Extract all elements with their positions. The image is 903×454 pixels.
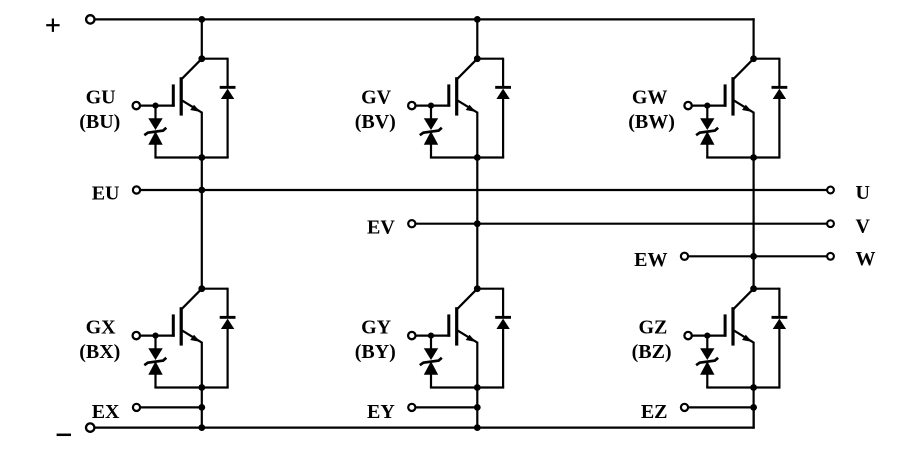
- node EW rail / leg: [750, 253, 757, 260]
- gate-emitter zener pair D4z: [144, 336, 166, 388]
- terminal EX: [133, 404, 140, 411]
- label - (negative DC terminal): [57, 434, 71, 437]
- wire zener to emitter node: [706, 156, 753, 158]
- gate node junction: [428, 333, 434, 339]
- terminal P (+): [86, 15, 94, 23]
- terminal N (-): [86, 423, 94, 431]
- collector node junction: [198, 285, 205, 292]
- wire EX to leg: [140, 406, 202, 408]
- freewheel diode D6: [754, 288, 788, 388]
- gate wire GU: [140, 104, 175, 106]
- wire zener to emitter node: [430, 386, 477, 388]
- wire zener to emitter node: [706, 386, 753, 388]
- IGBT Q5: [447, 289, 477, 346]
- wire bottom DC- rail: [94, 427, 754, 429]
- svg-text:(BX): (BX): [79, 341, 120, 363]
- emitter node junction: [198, 384, 205, 391]
- emitter node junction: [750, 384, 757, 391]
- svg-text:EU: EU: [92, 183, 120, 205]
- gate node junction: [152, 103, 158, 109]
- gate terminal GV: [408, 102, 415, 109]
- collector node junction: [474, 55, 481, 62]
- gate wire GZ: [692, 335, 727, 337]
- svg-text:EY: EY: [367, 401, 395, 423]
- collector node junction: [198, 55, 205, 62]
- gate wire GY: [416, 335, 451, 337]
- terminal W: [827, 253, 834, 260]
- collector node junction: [750, 55, 757, 62]
- svg-text:GV: GV: [361, 87, 392, 109]
- emitter wire: [476, 112, 478, 289]
- node EU rail / leg: [198, 187, 205, 194]
- svg-text:EV: EV: [367, 216, 395, 238]
- freewheel diode D3: [754, 58, 788, 158]
- node bottom rail / leg1: [198, 424, 205, 431]
- node top rail / leg1: [198, 16, 205, 23]
- gate node junction: [428, 103, 434, 109]
- svg-text:(BW): (BW): [628, 111, 675, 133]
- gate terminal GW: [684, 102, 691, 109]
- wire EY to leg: [415, 406, 477, 408]
- gate-emitter zener pair D6z: [696, 336, 718, 388]
- svg-text:(BU): (BU): [79, 111, 120, 133]
- terminal EW: [681, 253, 688, 260]
- wire zener to emitter node: [154, 156, 201, 158]
- emitter wire: [201, 342, 203, 428]
- gate-emitter zener pair D3z: [696, 106, 718, 158]
- gate node junction: [704, 333, 710, 339]
- terminal EZ: [681, 404, 688, 411]
- svg-text:GU: GU: [86, 87, 116, 109]
- freewheel diode D5: [477, 288, 511, 388]
- gate node junction: [152, 333, 158, 339]
- svg-text:EW: EW: [634, 249, 667, 271]
- svg-text:(BZ): (BZ): [632, 341, 672, 363]
- wire leg2 collector feed: [476, 19, 478, 58]
- svg-text:GW: GW: [632, 87, 668, 109]
- emitter node junction: [474, 384, 481, 391]
- wire EU to output U: [140, 189, 827, 191]
- wire EV to output V: [415, 223, 827, 225]
- gate wire GX: [140, 335, 175, 337]
- svg-text:(BV): (BV): [355, 111, 396, 133]
- gate terminal GY: [408, 332, 415, 339]
- label + (positive DC terminal): [46, 19, 59, 32]
- emitter wire: [752, 112, 754, 289]
- svg-text:U: U: [856, 182, 870, 204]
- terminal U: [827, 187, 834, 194]
- wire zener to emitter node: [154, 386, 201, 388]
- wire EW to output W: [688, 255, 827, 257]
- gate terminal GZ: [684, 332, 691, 339]
- gate node junction: [704, 103, 710, 109]
- wire zener to emitter node: [430, 156, 477, 158]
- gate wire GV: [416, 104, 451, 106]
- gate terminal GX: [133, 332, 140, 339]
- IGBT Q1: [172, 59, 202, 116]
- wire leg1 collector feed: [201, 19, 203, 58]
- IGBT Q2: [447, 59, 477, 116]
- wire top DC+ rail: [95, 18, 755, 20]
- IGBT Q3: [724, 59, 754, 116]
- wire DC- rail rise to leg3: [752, 407, 754, 428]
- svg-text:GY: GY: [361, 317, 392, 339]
- IGBT Q4: [172, 289, 202, 346]
- node EV rail / leg: [474, 220, 481, 227]
- svg-text:(BY): (BY): [355, 341, 396, 363]
- node EX junction: [198, 404, 205, 411]
- gate terminal GU: [133, 102, 140, 109]
- wire EZ to leg: [688, 406, 754, 408]
- emitter node junction: [198, 154, 205, 161]
- terminal V: [827, 220, 834, 227]
- svg-text:W: W: [856, 248, 876, 270]
- node top rail / leg2: [474, 16, 481, 23]
- collector node junction: [750, 285, 757, 292]
- gate-emitter zener pair D2z: [420, 106, 442, 158]
- freewheel diode D4: [202, 288, 236, 388]
- gate-emitter zener pair D1z: [144, 106, 166, 158]
- freewheel diode D1: [202, 58, 236, 158]
- gate-emitter zener pair D5z: [420, 336, 442, 388]
- svg-text:GX: GX: [86, 317, 117, 339]
- svg-text:GZ: GZ: [638, 317, 667, 339]
- gate wire GW: [692, 104, 727, 106]
- emitter wire: [752, 342, 754, 428]
- wire DC+ rail drop to leg3: [752, 18, 754, 58]
- node EZ junction: [750, 404, 757, 411]
- emitter node junction: [474, 154, 481, 161]
- collector node junction: [474, 285, 481, 292]
- node bottom rail / leg2: [474, 424, 481, 431]
- freewheel diode D2: [477, 58, 511, 158]
- terminal EU: [133, 186, 140, 193]
- emitter wire: [476, 342, 478, 428]
- terminal EV: [408, 220, 415, 227]
- terminal EY: [408, 404, 415, 411]
- svg-text:V: V: [856, 216, 871, 238]
- svg-text:EX: EX: [92, 401, 120, 423]
- emitter node junction: [750, 154, 757, 161]
- IGBT Q6: [724, 289, 754, 346]
- node EY junction: [474, 404, 481, 411]
- svg-text:EZ: EZ: [641, 401, 668, 423]
- emitter wire: [201, 112, 203, 289]
